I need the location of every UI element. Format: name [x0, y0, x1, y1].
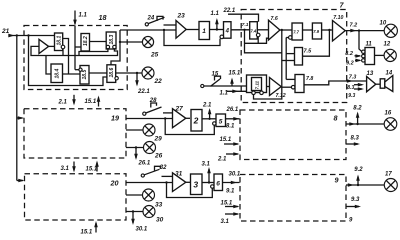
svg-text:7.11: 7.11 — [254, 80, 259, 89]
wire box 5 output into block 8 (node 8.1) — [226, 117, 240, 121]
switch 15 pushbutton — [201, 72, 221, 88]
box 18.3 — [106, 32, 116, 49]
node 15.1 arrow into block 8 — [220, 137, 240, 146]
lamp 17 — [384, 172, 397, 192]
node 15.1 up arrow between 20 and 19 — [86, 161, 99, 173]
wire block 9 output to lamp 17 — [346, 183, 384, 187]
label block 8 — [334, 114, 338, 123]
wire to lamp 25 — [120, 41, 143, 43]
wire vertical A — [254, 30, 282, 99]
svg-text:30: 30 — [156, 217, 164, 224]
inverter circles on block 11 inputs — [362, 50, 365, 62]
inverter circle on 18.6 output — [115, 77, 118, 80]
svg-text:1.1: 1.1 — [79, 13, 88, 19]
svg-text:15.1: 15.1 — [86, 166, 98, 172]
svg-text:33: 33 — [155, 202, 163, 209]
lamp 33 — [143, 189, 163, 209]
box 18.6 — [107, 65, 116, 83]
node 7.1 junction — [242, 22, 249, 31]
inverter circles below box 7.11 — [252, 91, 264, 95]
svg-text:2.1: 2.1 — [58, 100, 68, 106]
wire 7.7 to 7.9 — [303, 29, 313, 31]
svg-text:8.3: 8.3 — [347, 85, 354, 91]
svg-text:7.1: 7.1 — [242, 22, 249, 28]
wire vertical B with 7.7 inverter link — [286, 38, 288, 80]
svg-text:2: 2 — [193, 116, 199, 126]
svg-text:15.1: 15.1 — [81, 230, 93, 236]
label 9 at block 9 lower right — [349, 218, 353, 224]
svg-text:15.1: 15.1 — [220, 137, 232, 143]
svg-text:9.2: 9.2 — [346, 60, 354, 66]
svg-text:7.4: 7.4 — [250, 29, 256, 34]
node 15.1 up arrow below block 20 — [81, 221, 98, 236]
node 15.1 up arrow between 19 and 18 — [85, 96, 101, 107]
svg-text:23: 23 — [177, 13, 186, 20]
wire 27 to box 2 — [186, 117, 190, 119]
wire branch into block 19 with arrowhead — [17, 116, 24, 120]
block 18 dashed box — [24, 26, 127, 90]
op-amp 23 triangle — [176, 13, 186, 39]
node 1.1 arrow into box 7.11 — [220, 90, 247, 97]
node 9.2 arrow into block 11 — [346, 59, 362, 67]
op-amp 7.12 triangle — [270, 78, 286, 99]
junction A below 7.6 — [281, 29, 283, 31]
switch 24 pushbutton — [145, 16, 176, 26]
svg-text:12: 12 — [384, 42, 391, 48]
svg-text:19: 19 — [111, 114, 119, 123]
inverter circle on box 4 — [220, 35, 224, 39]
svg-text:3.1: 3.1 — [221, 219, 230, 225]
box 6 — [214, 174, 223, 191]
svg-text:2.1: 2.1 — [202, 103, 212, 109]
svg-text:11: 11 — [366, 42, 373, 48]
svg-text:2.1: 2.1 — [217, 157, 227, 163]
svg-text:18.4: 18.4 — [55, 69, 61, 79]
wire block 19 output to amp 27 — [126, 118, 173, 120]
wire left vertical rail — [16, 36, 18, 181]
svg-text:30.1: 30.1 — [136, 227, 148, 233]
svg-text:15.1: 15.1 — [229, 71, 241, 77]
box 5 — [216, 114, 226, 127]
junction node 7.2 — [358, 29, 360, 31]
wire block 8 output to lamp 16 — [346, 122, 384, 126]
svg-text:22: 22 — [154, 78, 163, 85]
wire U18a input loop — [31, 46, 118, 55]
box 18.1 — [55, 33, 63, 51]
box 18.5 — [80, 66, 89, 85]
wires 7.5 inputs — [282, 54, 295, 61]
switch 32 pushbutton — [141, 165, 172, 177]
node 2.1 arrow into block 8 — [217, 152, 240, 163]
svg-text:18.3: 18.3 — [109, 35, 115, 45]
inverter circles on 18.3 outputs — [106, 45, 116, 48]
label block 19 — [111, 114, 119, 123]
svg-text:25: 25 — [150, 52, 159, 59]
label block 7 — [340, 1, 345, 10]
node 2.1 up arrow from row 2 — [202, 103, 212, 120]
wire 1.1 drop inside block 18 — [74, 26, 76, 48]
label 26.1 above 8.1 — [226, 107, 239, 113]
wire vertical node x120 — [111, 30, 121, 65]
block 20 dashed box — [25, 174, 127, 220]
svg-text:18.5: 18.5 — [82, 70, 88, 80]
label block 9 — [335, 176, 339, 185]
node 22.1 down arrow — [135, 72, 150, 95]
box 18.4 — [51, 64, 63, 83]
svg-text:8.3: 8.3 — [351, 136, 360, 142]
junction row3 feedback — [165, 181, 167, 183]
wire box 2 to box 5 — [202, 118, 216, 120]
inverter circle on box 7.8 input — [291, 85, 295, 89]
node 15.1 arrow into block 9 — [221, 201, 240, 209]
svg-text:26: 26 — [154, 153, 163, 160]
svg-text:7.8: 7.8 — [306, 76, 313, 82]
wire 18.4 left input — [46, 56, 51, 75]
node 26.1 down arrow — [134, 146, 151, 166]
node 15.1 up arrow — [229, 71, 241, 87]
node 8.3 arrow into amp 13 — [347, 83, 364, 91]
box 4 — [224, 22, 232, 39]
wire to lamp 33 — [126, 194, 143, 196]
wire 13 to speaker — [376, 83, 380, 85]
wire feedback loop row1 (to inverter of box 4) — [164, 30, 220, 46]
wire 7.5 output up to main — [303, 30, 330, 56]
wire box 6 output into block 9 (node 9.1) — [223, 181, 240, 185]
inverter circle on 18.5 input — [75, 47, 82, 71]
op-amp 7.6 triangle — [269, 16, 280, 40]
wire 1.1 to box 18.2 — [75, 46, 81, 48]
label 8.1 — [226, 123, 235, 129]
svg-text:5: 5 — [219, 118, 223, 125]
svg-text:9.3: 9.3 — [351, 197, 360, 203]
wire main row1 to amp 23 — [120, 29, 176, 31]
svg-text:6: 6 — [216, 181, 220, 188]
svg-text:9.2: 9.2 — [354, 167, 363, 173]
wire 7.12 to 7.8 inverter — [281, 86, 291, 88]
wire branch into block 20 with arrowhead — [17, 179, 25, 183]
block 11 selector box — [365, 42, 375, 65]
wire to lamp 26 — [126, 147, 144, 149]
wire 7.6 to 7.7 — [280, 29, 292, 31]
box 7.11 double rectangle — [247, 75, 267, 93]
wire 18 left rail — [27, 34, 107, 85]
lamp 16 — [384, 111, 397, 131]
svg-text:8.2: 8.2 — [345, 51, 353, 57]
speaker 14 — [380, 71, 393, 92]
svg-text:22.1: 22.1 — [223, 8, 236, 14]
wire 18.1 output — [63, 39, 69, 75]
svg-text:3.1: 3.1 — [202, 162, 211, 168]
node 30.1 down arrow — [131, 210, 148, 232]
label 9.1 — [226, 189, 235, 195]
svg-text:1: 1 — [202, 28, 206, 35]
svg-text:7.7: 7.7 — [293, 30, 299, 35]
box 7.5 — [295, 48, 313, 66]
svg-text:8: 8 — [334, 114, 338, 123]
svg-text:29: 29 — [154, 136, 163, 143]
box 2 — [191, 110, 202, 132]
svg-text:8.1: 8.1 — [226, 123, 235, 129]
wire 7.1 feedback rail — [245, 30, 282, 53]
label block 20 — [110, 179, 119, 188]
switch 28 pushbutton — [143, 98, 173, 115]
label block 18 — [99, 13, 107, 22]
inverter circle on box 7.4 — [256, 33, 260, 43]
svg-text:7.9: 7.9 — [313, 29, 319, 34]
svg-text:3: 3 — [193, 180, 198, 190]
lamp 12 — [384, 42, 397, 62]
inverter circle on box 6 — [211, 185, 214, 188]
svg-text:7.6: 7.6 — [271, 16, 278, 22]
svg-text:24: 24 — [147, 16, 155, 22]
svg-text:8.2: 8.2 — [353, 106, 362, 112]
lamp 25 — [142, 36, 158, 58]
node 3.1 up arrow from row 3 — [202, 162, 211, 184]
junction 7.5 output joins main — [328, 29, 330, 31]
svg-text:4: 4 — [225, 29, 230, 35]
svg-text:15.1: 15.1 — [221, 201, 233, 207]
label 30.1 above 9.1 — [229, 172, 241, 178]
wire 18.3 output stubs — [79, 49, 108, 56]
svg-text:20: 20 — [110, 179, 119, 188]
node 2.1 down arrow between 18 and 19 — [58, 95, 76, 106]
svg-text:9: 9 — [335, 176, 339, 185]
op-amp U18a triangle — [39, 39, 49, 53]
op-amp 31 triangle — [173, 171, 186, 192]
wire block 11 to lamp 12 — [375, 54, 385, 56]
svg-text:7.3: 7.3 — [349, 75, 357, 81]
svg-text:18: 18 — [99, 13, 107, 22]
box 7.7 — [292, 23, 303, 40]
block 8 dashed box — [240, 110, 346, 160]
svg-text:18.2: 18.2 — [83, 36, 89, 46]
svg-text:15.1: 15.1 — [85, 99, 97, 105]
wire box 3 to box 6 — [202, 182, 214, 184]
node 1.1 branch up arrow — [215, 18, 219, 31]
node 9.2 up arrow — [354, 167, 363, 185]
wire 7.11 to 7.12 — [266, 86, 270, 88]
svg-text:7.5: 7.5 — [304, 48, 313, 54]
svg-text:7.10: 7.10 — [333, 15, 343, 21]
junction feedback row1 — [163, 29, 165, 31]
box 7.9 — [312, 23, 321, 39]
op-amp 7.10 triangle — [333, 15, 346, 41]
svg-text:26.1: 26.1 — [226, 107, 239, 113]
svg-text:16: 16 — [385, 111, 392, 117]
svg-text:18.1: 18.1 — [57, 36, 63, 46]
inverter circle on box 7.7 input — [289, 36, 293, 40]
wire box1 to box4 — [210, 29, 224, 31]
node 3.1 arrow into block 9 — [221, 212, 240, 225]
svg-text:7.2: 7.2 — [350, 22, 358, 28]
inverter circle on 18.1 output — [61, 45, 65, 49]
wire 18.4 to 18.5 — [63, 73, 81, 75]
wire box4 to 7.1 — [231, 29, 250, 31]
svg-text:3.1: 3.1 — [61, 166, 70, 172]
lamp 22 — [142, 67, 162, 85]
lamp 29 — [143, 124, 162, 143]
svg-text:17: 17 — [385, 172, 392, 178]
node 21 input label — [1, 28, 10, 35]
svg-text:9.3: 9.3 — [348, 93, 355, 99]
wire 7.4 to 7.6 — [257, 29, 268, 31]
wire feedback row3 — [167, 183, 213, 198]
svg-text:26.1: 26.1 — [138, 161, 151, 167]
node 8.2 up arrow — [353, 106, 362, 125]
svg-text:9.1: 9.1 — [226, 189, 235, 195]
svg-text:22.1: 22.1 — [137, 89, 150, 95]
block 19 dashed box — [24, 109, 126, 158]
node 22.1 line into block 7 — [223, 8, 259, 22]
svg-text:30.1: 30.1 — [229, 172, 241, 178]
svg-text:18.6: 18.6 — [109, 68, 115, 78]
wire node 7.2 down into block 11 — [359, 31, 362, 52]
wire to lamp 30 — [126, 211, 143, 213]
node 9.3 arrow into amp 13 — [348, 87, 364, 99]
wire U18a output — [49, 45, 55, 47]
node 8.3 output arrow — [346, 136, 360, 146]
node 8.2 arrow into block 11 — [345, 51, 361, 58]
wire 31 to box 3 — [186, 181, 190, 183]
svg-text:7.12: 7.12 — [276, 93, 286, 99]
junction left rail — [16, 34, 18, 36]
wire feedback row2 — [165, 119, 214, 135]
op-amp 13 triangle — [367, 71, 376, 92]
op-amp 27 triangle — [173, 106, 186, 128]
wire 7.10 output node 7.2 — [345, 22, 384, 32]
wire 7.8 top input — [286, 78, 295, 80]
label 1.1 by box 1 — [211, 11, 220, 17]
wire 23 to box 1 — [186, 29, 199, 31]
box 1 — [199, 22, 210, 40]
svg-text:1.1: 1.1 — [211, 11, 220, 17]
junction row2 feedback — [164, 117, 166, 119]
node 1.1 top input arrow — [73, 11, 87, 26]
inverter circle on box 5 — [213, 122, 216, 125]
wire 7.8 output node 7.3 — [304, 75, 366, 85]
wire input 21 with arrowhead — [8, 34, 54, 38]
box 7.8 — [295, 75, 313, 93]
wire 7.9 to 7.10 — [322, 29, 333, 31]
wire to lamp 29 — [126, 129, 143, 131]
svg-text:13: 13 — [367, 71, 374, 77]
lamp 10 — [380, 21, 398, 38]
wire switch 15 to box 7.11 — [204, 85, 252, 87]
wire block 20 output to amp 31 — [126, 182, 173, 184]
block 7 dashed box — [241, 10, 347, 103]
wire 18.2 output to 18.3 — [90, 41, 107, 43]
wire 18.6 to lamp 22 — [116, 72, 142, 74]
box 3 — [191, 174, 203, 195]
box 7.4 — [250, 22, 258, 39]
box 18.2 — [81, 34, 90, 52]
lamp 30 — [143, 206, 164, 224]
node 9.3 output arrow — [346, 197, 361, 208]
lamp 26 — [144, 142, 163, 160]
wire 18.5 to 18.6 — [89, 72, 107, 74]
node 3.1 down arrow between 19 and 20 — [61, 162, 76, 173]
block 9 dashed box — [240, 175, 346, 222]
